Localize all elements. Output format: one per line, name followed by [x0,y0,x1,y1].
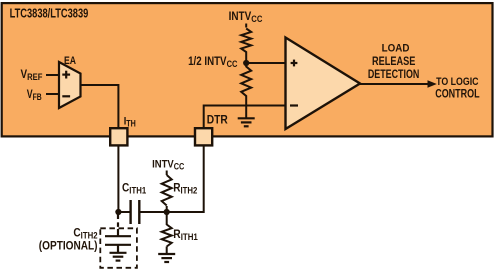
svg-text:RELEASE: RELEASE [372,56,415,68]
svg-text:RITH2: RITH2 [173,182,197,196]
svg-text:EA: EA [64,55,77,67]
svg-text:DTR: DTR [207,114,228,127]
svg-text:(OPTIONAL): (OPTIONAL) [39,240,98,253]
svg-text:LOAD: LOAD [382,42,410,55]
svg-text:CITH1: CITH1 [122,182,146,196]
svg-text:RITH1: RITH1 [173,228,198,242]
svg-text:CONTROL: CONTROL [435,88,479,100]
svg-text:LTC3838/LTC3839: LTC3838/LTC3839 [10,7,89,21]
svg-text:INTVCC: INTVCC [152,158,184,172]
svg-text:CITH2: CITH2 [73,227,97,241]
svg-text:TO LOGIC: TO LOGIC [436,76,479,88]
svg-text:DETECTION: DETECTION [368,69,420,81]
